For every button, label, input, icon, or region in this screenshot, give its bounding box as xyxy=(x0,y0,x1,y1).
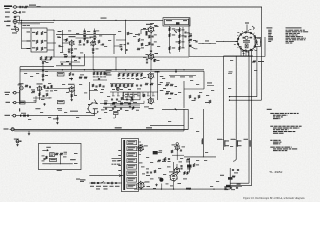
svg-text:TL 4982: TL 4982 xyxy=(269,170,283,174)
